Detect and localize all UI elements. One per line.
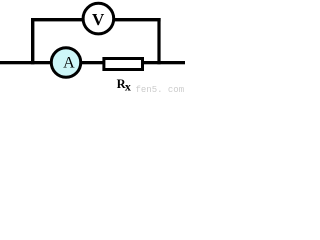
svg-text:V: V (92, 10, 105, 29)
wire left vertical (31, 18, 34, 64)
voltmeter U1 (83, 3, 114, 34)
svg-text:A: A (63, 54, 75, 71)
label Rx (117, 77, 131, 93)
svg-text:x: x (125, 79, 131, 93)
resistor Rx (104, 59, 143, 70)
wire top-right horizontal (113, 18, 161, 21)
svg-text:fen5. com: fen5. com (136, 85, 185, 94)
wire bottom-right horizontal (141, 61, 185, 64)
wire right vertical (157, 18, 160, 64)
wire ammeter-to-resistor (79, 61, 106, 64)
wire top-left horizontal (31, 18, 84, 21)
ammeter A1 (51, 48, 81, 78)
wire bottom-left horizontal (0, 61, 54, 64)
